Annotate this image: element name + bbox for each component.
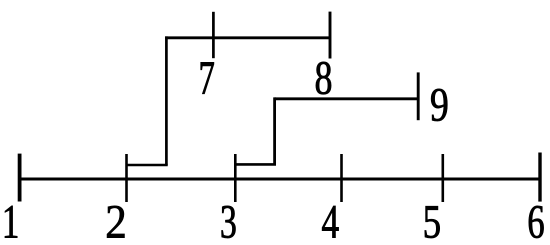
connector wire tick 3 to riser: [235, 163, 276, 166]
middle interval line ending at 9: [275, 97, 419, 100]
tick 8: [329, 12, 332, 59]
label 9: [431, 89, 447, 121]
label 3: [222, 206, 236, 238]
label 2: [107, 206, 124, 238]
tick 5: [441, 154, 444, 202]
endpoint tick 1: [18, 154, 22, 202]
riser wire from tick 3 up to line 9: [273, 97, 276, 164]
tick 2: [125, 154, 128, 202]
endpoint tick 6: [538, 153, 541, 202]
upper interval line 7-8: [165, 36, 330, 39]
label 8: [316, 62, 331, 94]
riser wire from tick 2 up to line 7-8: [165, 36, 168, 165]
label 7: [201, 62, 214, 93]
tick 9: [417, 72, 420, 120]
main number line: [20, 178, 540, 181]
tick 4: [340, 154, 343, 202]
label 4: [322, 206, 338, 238]
label 5: [425, 206, 440, 238]
label 1: [5, 206, 17, 238]
label 6: [529, 206, 544, 238]
tick 7: [212, 12, 215, 58]
tick 3: [234, 154, 237, 202]
connector wire tick 2 to riser: [127, 164, 168, 167]
